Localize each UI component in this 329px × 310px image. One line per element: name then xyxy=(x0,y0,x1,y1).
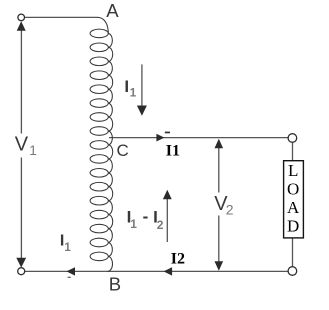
svg-text:O: O xyxy=(287,180,299,199)
svg-text:1: 1 xyxy=(130,217,137,231)
load resistor box xyxy=(284,161,304,238)
svg-text:V: V xyxy=(15,134,29,156)
svg-text:2: 2 xyxy=(157,218,164,232)
svg-text:2: 2 xyxy=(226,202,234,218)
node A label xyxy=(106,0,119,21)
autotransformer winding A-C-B (coil) xyxy=(90,17,113,271)
svg-text:B: B xyxy=(109,274,121,295)
terminal bottom-right (open circle) xyxy=(288,267,297,276)
wire right vertical top (terminal to LOAD) xyxy=(292,142,294,160)
current arrow I1 - I2 (upward, left of V2) xyxy=(163,190,172,242)
svg-text:I: I xyxy=(124,77,129,96)
wire bottom (full bottom rail) xyxy=(24,270,288,272)
polarity dash above C wire xyxy=(165,132,170,134)
svg-text:D: D xyxy=(287,216,299,235)
stray dash below bottom wire arrow xyxy=(68,277,71,278)
label I1 (top, sans with subscript) xyxy=(124,77,136,100)
label I1 (bottom left, sans with subscript) xyxy=(60,232,72,254)
svg-text:L: L xyxy=(288,161,298,180)
svg-text:C: C xyxy=(117,141,129,160)
terminal top-right (open circle) xyxy=(288,134,297,143)
label V2 xyxy=(214,193,234,218)
voltage arrow V2 (double headed) xyxy=(209,139,236,271)
wire C to load (horizontal) xyxy=(109,137,288,139)
current arrow I1 (downward, right of winding top) xyxy=(137,64,147,115)
label I2 (serif, above bottom wire) xyxy=(171,251,185,268)
svg-text:-: - xyxy=(143,207,149,226)
svg-text:I1: I1 xyxy=(166,143,180,160)
current arrowhead I1 on bottom wire (pointing left) xyxy=(66,267,75,275)
svg-text:I2: I2 xyxy=(171,251,185,268)
label I1 (serif, on C wire) xyxy=(166,143,180,160)
node B label xyxy=(109,274,121,295)
terminal top-left (open circle) xyxy=(18,14,25,21)
node C label xyxy=(117,141,129,160)
voltage arrow V1 (double headed, left side) xyxy=(12,21,37,267)
wire top (input terminal to A) xyxy=(24,16,98,18)
current arrowhead I2 on bottom wire (pointing left) xyxy=(164,267,173,275)
terminal bottom-left (open circle) xyxy=(18,268,25,275)
svg-text:1: 1 xyxy=(64,242,71,254)
label V1 xyxy=(15,134,37,158)
svg-text:A: A xyxy=(287,198,300,217)
svg-text:A: A xyxy=(106,0,119,21)
svg-text:1: 1 xyxy=(130,86,137,100)
label I1 - I2 xyxy=(127,207,164,232)
label LOAD (vertical letters) xyxy=(287,161,300,235)
svg-text:1: 1 xyxy=(29,142,37,158)
current arrowhead I1 on C wire (pointing right) xyxy=(156,134,164,142)
wire right vertical bottom (LOAD to terminal) xyxy=(292,238,294,267)
